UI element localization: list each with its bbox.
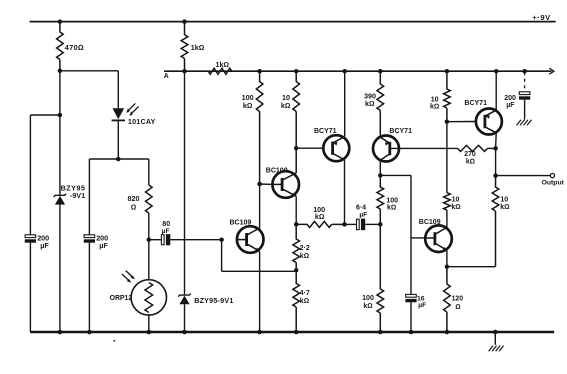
svg-text:BC109: BC109 [266, 167, 288, 174]
wire Q4 junction to Q5 base [380, 175, 425, 238]
svg-text:Ω: Ω [131, 203, 137, 212]
zener BZY95-9V1 shunt [178, 294, 191, 332]
node Q3 emitter rail [342, 69, 347, 74]
transistor BC109 Q1 [237, 226, 264, 253]
svg-text:101CAY: 101CAY [128, 118, 156, 126]
transistor BC109 Q5 [425, 225, 452, 252]
node zener2 ground [182, 330, 187, 335]
node BC109-2 base tap [257, 182, 262, 187]
svg-text:kΩ: kΩ [430, 104, 439, 111]
node 4.7k ground [294, 330, 299, 335]
wire LED cathode crossbar [89, 158, 148, 160]
svg-text:BC109: BC109 [230, 220, 252, 227]
svg-text:100: 100 [386, 197, 398, 204]
label 10k to collector [451, 197, 460, 211]
svg-text:kΩ: kΩ [300, 253, 309, 260]
node Q6 base node [445, 119, 450, 124]
label 200uF left [37, 234, 49, 251]
label 4.7k [300, 290, 310, 305]
label BC109 Q2 [266, 167, 288, 174]
wire crossbar to 820R [148, 159, 150, 185]
svg-text:2·2: 2·2 [300, 245, 310, 252]
wire Q1 base feedback down [221, 240, 223, 272]
svg-text:kΩ: kΩ [365, 99, 375, 108]
wire ORP12 light arrows [122, 271, 135, 283]
svg-text:µF: µF [162, 228, 170, 235]
svg-text:BCY71: BCY71 [314, 128, 337, 135]
node rail 390k junction [378, 69, 383, 74]
capacitor C 200uF output [519, 92, 530, 120]
node 100k bottom ground [378, 330, 383, 335]
resistor 100k stage1 [256, 71, 263, 184]
wire cap2 column upper [88, 159, 90, 235]
svg-text:kΩ: kΩ [387, 205, 396, 212]
node ORP12 ground [147, 330, 152, 335]
label 101CAY [128, 118, 156, 126]
capacitor C 200uF left [25, 235, 36, 243]
node cap2 ground [87, 330, 92, 335]
wire left cap column upper [29, 115, 31, 235]
node 2.2k/4.7k junction [294, 268, 299, 273]
svg-text:10: 10 [500, 197, 508, 204]
label 2.2k [300, 245, 310, 260]
resistor 4.7k [293, 270, 300, 332]
svg-text:kΩ: kΩ [466, 158, 475, 165]
svg-text:1kΩ: 1kΩ [191, 43, 205, 52]
node speck artifact [113, 340, 115, 342]
ground chassis lower [489, 346, 504, 352]
wire output lead [496, 175, 551, 177]
node BCY71-1 base tap [294, 146, 299, 151]
label 10k stage2 [281, 93, 291, 110]
resistor 1k horizontal [208, 68, 232, 74]
capacitor C 200uF second [84, 235, 95, 243]
wire Q2 emitter [295, 196, 297, 224]
resistor 820R [146, 185, 153, 213]
resistor 390k [377, 71, 384, 137]
label BZY95 left [61, 184, 86, 200]
svg-text:kΩ: kΩ [281, 101, 291, 110]
svg-text:120: 120 [452, 296, 464, 303]
resistor 10k stage2 [293, 71, 300, 173]
ground chassis upper [517, 120, 532, 125]
node Q1 base junction [219, 237, 224, 242]
node bottom rail ground stub [493, 330, 498, 335]
wire BCY71-1 collector drop [344, 160, 346, 225]
node rail 100k junction [257, 69, 262, 74]
wire to BCY71-1 base [296, 147, 324, 149]
zener BZY95 -9V1 left [54, 115, 67, 332]
label 200uF output [504, 95, 516, 109]
svg-text:BCY71: BCY71 [389, 128, 412, 135]
label 100k interstage [313, 205, 325, 221]
node Q1 emitter ground [257, 330, 262, 335]
svg-text:µF: µF [506, 102, 515, 109]
label 1k horizontal [216, 60, 230, 69]
svg-text:kΩ: kΩ [315, 212, 325, 221]
node 820R/ORP12/80uF junction [147, 237, 152, 242]
svg-text:1kΩ: 1kΩ [216, 60, 230, 69]
wire rail arrow end [549, 68, 554, 74]
label BZY95-9V1 [194, 296, 233, 305]
resistor 270k [458, 145, 488, 151]
label +9V [532, 13, 551, 22]
node Q6 emitter rail [494, 69, 499, 74]
node 16uF ground [409, 330, 414, 335]
svg-text:kΩ: kΩ [243, 101, 253, 110]
svg-text:BC109: BC109 [419, 219, 441, 226]
label Output [542, 179, 565, 186]
wire node to photocell [148, 240, 150, 280]
node Q4 output junction [378, 173, 383, 178]
svg-text:470Ω: 470Ω [65, 43, 84, 52]
svg-text:Output: Output [542, 179, 565, 186]
wire cap2 column lower [88, 243, 90, 332]
terminal output [550, 174, 554, 178]
resistor 10k upper right [444, 71, 451, 122]
label 6.4uF [356, 204, 368, 218]
label A [164, 73, 169, 80]
wire left cap column lower [29, 243, 31, 332]
node Q5 emitter junction [445, 264, 450, 269]
svg-text:µF: µF [40, 241, 49, 250]
node rail 10k-a junction [445, 69, 450, 74]
wire emitter to 10k output [447, 266, 496, 268]
node top rail / 470R junction [58, 19, 63, 24]
wire Q6 emitter to rail [495, 71, 497, 110]
transistor BCY71 Q4 [373, 136, 399, 162]
label BC109 Q1 [230, 220, 252, 227]
svg-text:BCY71: BCY71 [464, 100, 487, 107]
node top rail 1k junction [182, 19, 187, 24]
label 270k [464, 151, 476, 165]
svg-text:kΩ: kΩ [363, 303, 372, 310]
svg-text:270: 270 [464, 151, 476, 158]
label 390k [364, 91, 376, 108]
wire Q5 emitter [446, 250, 448, 266]
node A [182, 69, 187, 74]
wire Q4 bottom pin [379, 160, 381, 175]
wire divider down [446, 122, 448, 193]
wire 270k to collector node [488, 147, 496, 149]
svg-text:µF: µF [418, 302, 426, 309]
node 6.4uF junction [378, 222, 383, 227]
svg-text:µF: µF [359, 212, 367, 219]
label BC109 Q5 [419, 219, 441, 226]
resistor 10k output [492, 176, 499, 267]
wire dashed cap link [524, 72, 526, 92]
diode LED 101CAY [112, 108, 125, 159]
node output tap [493, 173, 498, 178]
svg-text:Ω: Ω [455, 304, 460, 311]
label 200uF second [96, 234, 108, 251]
svg-text:kΩ: kΩ [451, 204, 460, 211]
node 470R bottom junction [58, 69, 63, 74]
svg-text:ORP12: ORP12 [110, 295, 133, 302]
resistor 470R [57, 22, 64, 71]
wire Q1 emitter to ground [259, 251, 261, 332]
wire ground stub [494, 332, 496, 345]
capacitor C 6.4uF [345, 219, 381, 231]
wire feedback horizontal [222, 270, 297, 272]
wire LED anode [117, 71, 119, 108]
label BCY71 Q3 [314, 128, 337, 135]
node rail 200uF junction [522, 69, 527, 74]
svg-text:200: 200 [504, 95, 516, 102]
wire Q3 emitter to rail [344, 71, 346, 136]
capacitor C 80uF coupling [149, 234, 222, 245]
wire to Q5 collector [446, 210, 448, 228]
svg-text:-9V1: -9V1 [70, 193, 86, 200]
wire to BCY71-3 base [447, 121, 476, 123]
wire +9V top supply rail [30, 21, 556, 23]
wire 470R to LED [60, 70, 118, 72]
wire 820R to node [148, 213, 150, 240]
label 1k vertical [191, 43, 205, 52]
node left branch T [58, 113, 63, 118]
wire collector to output tap [495, 148, 497, 175]
node 120R ground [445, 330, 450, 335]
label 16uF [417, 295, 426, 309]
wire Q2 base [260, 183, 273, 185]
resistor 100k mid [377, 175, 384, 224]
resistor 10k to collector [444, 193, 451, 210]
label 100k stage1 [242, 93, 254, 110]
wire Q4 base to 270k [390, 147, 458, 149]
svg-text:A: A [164, 73, 169, 80]
resistor 100k interstage [296, 221, 344, 227]
label 100k bottom [362, 295, 374, 310]
wire collector drop Q1 [259, 184, 261, 228]
svg-text:100: 100 [362, 295, 374, 302]
svg-text:BZY95-9V1: BZY95-9V1 [194, 296, 233, 305]
label 820R [128, 194, 140, 211]
wire ground bottom rail [30, 331, 554, 333]
transistor BCY71 Q6 [476, 109, 502, 135]
node Q6 collector junction [493, 146, 498, 151]
capacitor C 16uF [405, 238, 416, 332]
wire 470R down [59, 71, 61, 115]
wire Q6 collector [495, 133, 498, 149]
wire LED light rays [126, 103, 138, 116]
svg-text:+·9V: +·9V [532, 13, 551, 22]
photocell ORP12 [131, 280, 166, 332]
resistor 100k bottom [377, 224, 384, 332]
resistor 1k vertical [181, 22, 188, 72]
label 100k mid [386, 197, 398, 211]
wire jog left [30, 114, 60, 116]
svg-text:kΩ: kΩ [300, 298, 309, 305]
node zener1 ground [58, 330, 63, 335]
transistor BCY71 Q3 [323, 135, 349, 161]
label 10k output [500, 197, 509, 211]
resistor 120R [444, 267, 451, 332]
label 470R [65, 43, 84, 52]
label 120R [452, 296, 464, 311]
svg-text:6·4: 6·4 [356, 204, 366, 211]
svg-text:BZY95: BZY95 [61, 184, 86, 193]
label 10k upper right [430, 96, 439, 110]
resistor 2.2k [293, 224, 300, 270]
svg-text:4·7: 4·7 [300, 290, 310, 297]
wire regulated rail from node A [164, 70, 552, 72]
transistor BC109 Q2 [272, 171, 299, 198]
svg-text:10: 10 [431, 96, 439, 103]
wire A column down [184, 71, 186, 294]
svg-text:10: 10 [452, 197, 460, 204]
label BCY71 Q6 [464, 100, 487, 107]
svg-text:µF: µF [99, 241, 108, 250]
label ORP12 [110, 295, 133, 302]
node rail 10k junction [294, 69, 299, 74]
label 80uF [162, 221, 171, 235]
node interstage junction [342, 222, 347, 227]
node Q2 emitter junction [294, 222, 299, 227]
node LED cathode junction [116, 157, 121, 162]
svg-text:kΩ: kΩ [500, 204, 509, 211]
label BCY71 Q4 [389, 128, 412, 135]
